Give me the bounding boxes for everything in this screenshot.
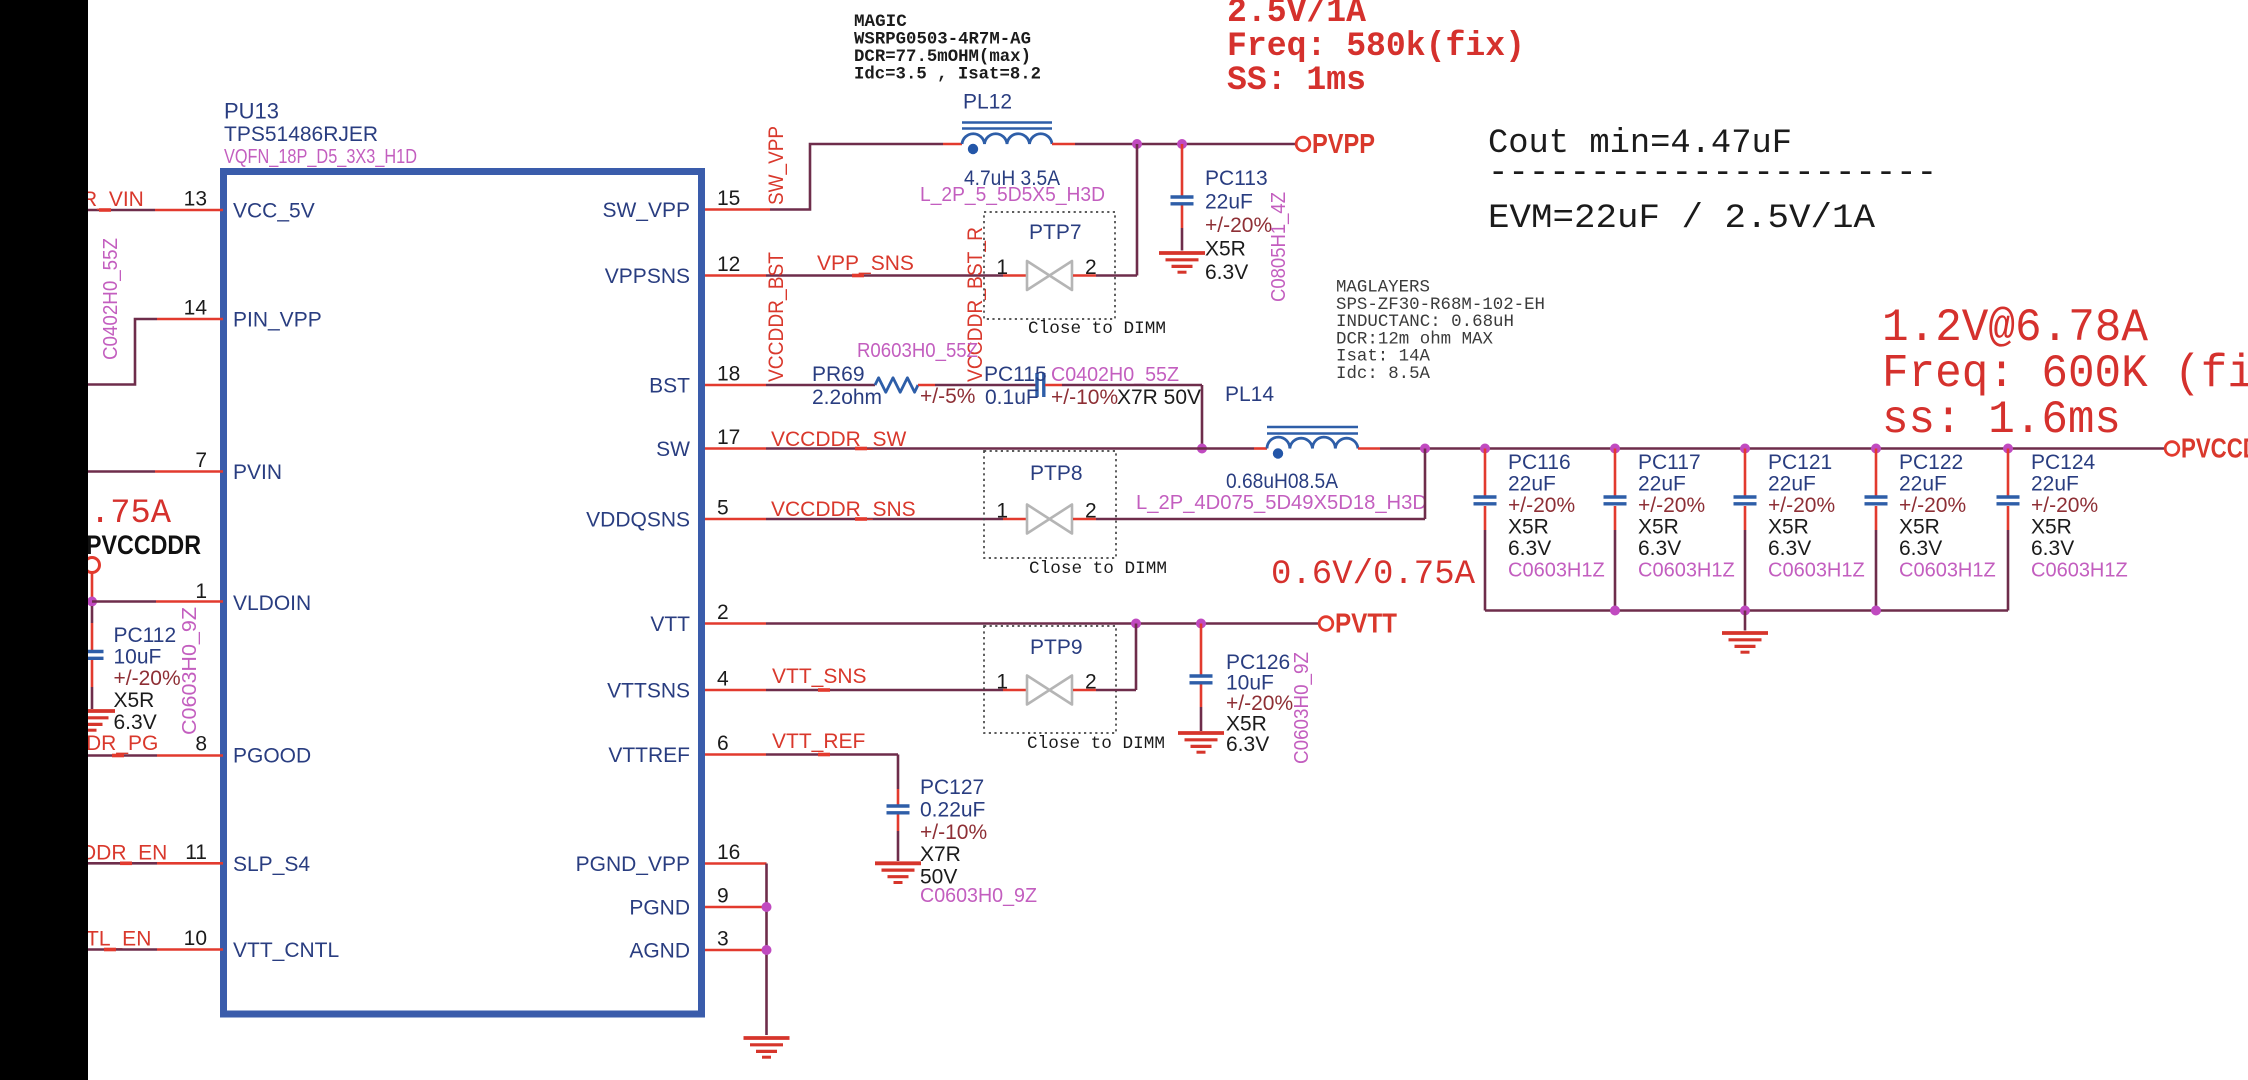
reference designator PL14 — [1225, 383, 1274, 406]
value label 2.2ohm — [812, 386, 882, 409]
capacitor PC126 — [1190, 676, 1213, 683]
svg-text:SLP_S4: SLP_S4 — [233, 853, 310, 876]
test point PTP9 dotted box — [984, 626, 1116, 733]
wire stub to ground — [1744, 611, 1747, 631]
note Close to DIMM (PTP8) — [1029, 559, 1167, 579]
pin number 2 of PTP7 — [1085, 256, 1097, 279]
svg-text:L_2P_4D075_5D49X5D18_H3D: L_2P_4D075_5D49X5D18_H3D — [1136, 492, 1427, 514]
svg-text:X5R: X5R — [1205, 238, 1246, 261]
op-amp/regulator IC PU13 TPS51486RJER body — [224, 172, 702, 1015]
svg-text:C0603H0_9Z: C0603H0_9Z — [920, 885, 1037, 907]
svg-text:+/-10%: +/-10% — [920, 821, 987, 844]
svg-text:SPS-ZF30-R68M-102-EH: SPS-ZF30-R68M-102-EH — [1336, 296, 1545, 315]
svg-text:22uF: 22uF — [1899, 473, 1947, 496]
pin name SW — [656, 438, 690, 461]
pin number 14 — [184, 297, 208, 320]
svg-text:PL12: PL12 — [963, 91, 1012, 114]
junction node PGND — [762, 902, 772, 912]
inductor PL12 — [962, 123, 1052, 155]
svg-text:PC122: PC122 — [1899, 451, 1963, 474]
svg-text:Idc: 8.5A: Idc: 8.5A — [1336, 365, 1431, 384]
pin number 15 — [717, 187, 740, 210]
note EVM=22uF / 2.5V/1A — [1488, 200, 1876, 238]
pin name VLDOIN — [233, 592, 311, 615]
wire node down to capacitor PC112 — [91, 606, 94, 650]
left black mask bar — [0, 0, 88, 1080]
port symbol PVCCDDR left — [85, 558, 100, 573]
value labels PC124 — [2031, 451, 2128, 582]
capacitor PC121 — [1734, 497, 1757, 504]
svg-text:SW_VPP: SW_VPP — [765, 126, 788, 205]
footprint label L_2P_4D075_5D49X5D18_H3D — [1136, 492, 1427, 514]
reference designator PR69 — [812, 363, 865, 386]
svg-text:C0603H1Z: C0603H1Z — [1508, 560, 1605, 582]
wire PC121 to bottom rail — [1744, 506, 1747, 611]
net label VCCDDR_BST_R (vertical) — [964, 227, 987, 382]
svg-text:6.3V: 6.3V — [1899, 537, 1942, 560]
svg-text:13: 13 — [184, 188, 207, 211]
capacitor footprint label C0603H0_9Z (PC127) — [920, 885, 1037, 907]
svg-text:SW: SW — [656, 438, 690, 461]
port symbol PVCCDDR — [2165, 442, 2179, 456]
svg-text:ss: 1.6ms: ss: 1.6ms — [1882, 394, 2121, 446]
PU13 footprint label — [224, 145, 417, 168]
svg-text:X5R: X5R — [1508, 516, 1549, 539]
svg-text:C0603H0_9Z: C0603H0_9Z — [179, 607, 201, 735]
svg-text:X5R: X5R — [2031, 516, 2072, 539]
wire pin 15 SW_VPP up and right — [705, 144, 962, 210]
pin name VDDQSNS — [586, 509, 690, 532]
wire rail down to capacitor PC116 — [1484, 449, 1487, 496]
wire rail down to capacitor PC122 — [1875, 449, 1878, 496]
pin number 17 — [717, 426, 740, 449]
svg-text:22uF: 22uF — [1205, 191, 1253, 214]
junction nodes on bottom rail — [1610, 606, 1881, 616]
pin name PVIN — [233, 461, 282, 484]
svg-text:+/-20%: +/-20% — [2031, 494, 2098, 517]
svg-text:6.3V: 6.3V — [2031, 537, 2074, 560]
pin number 4 — [717, 668, 729, 691]
svg-text:X5R: X5R — [1768, 516, 1809, 539]
capacitor footprint label C0603H0_9Z (PC126, vertical) — [1291, 652, 1313, 764]
pin number 7 — [195, 449, 207, 472]
svg-text:PR69: PR69 — [812, 363, 865, 386]
note Close to DIMM (PTP7) — [1028, 319, 1166, 339]
svg-text:C0603H1Z: C0603H1Z — [1638, 560, 1735, 582]
svg-text:22uF: 22uF — [1638, 473, 1686, 496]
svg-text:PTP9: PTP9 — [1030, 636, 1083, 659]
note MAGIC inductor spec block — [854, 12, 1041, 85]
svg-text:VTTREF: VTTREF — [608, 744, 690, 767]
svg-text:22uF: 22uF — [1508, 473, 1556, 496]
port symbol PVPP — [1296, 137, 1310, 151]
ground under cap bank — [1722, 633, 1768, 652]
svg-text:9: 9 — [717, 885, 729, 908]
svg-text:1: 1 — [996, 500, 1008, 523]
net label VCCDDR_SNS — [771, 498, 916, 521]
pin name PGND_VPP — [576, 853, 690, 876]
wire PTP9 pin2 up to PVTT rail — [1073, 624, 1136, 691]
pin name VTTSNS — [607, 680, 690, 703]
tolerance label +/-10% — [1051, 386, 1118, 409]
svg-text:6.3V: 6.3V — [1508, 537, 1551, 560]
svg-text:DDR_EN: DDR_EN — [81, 842, 167, 865]
svg-text:15: 15 — [717, 187, 740, 210]
svg-text:6: 6 — [717, 732, 729, 755]
ground under PC126 — [1178, 733, 1224, 752]
net label DDR_EN — [81, 842, 167, 865]
svg-text:C0603H1Z: C0603H1Z — [2031, 560, 2128, 582]
capacitor PC116 — [1474, 497, 1497, 504]
pin number 1 of PTP7 — [996, 256, 1008, 279]
junction node VTT/PC126 — [1196, 619, 1206, 629]
wire net to pin 7 PVIN — [88, 470, 223, 473]
svg-text:PC113: PC113 — [1205, 167, 1268, 190]
resistor PR69 — [875, 378, 918, 392]
pin name SW_VPP — [602, 199, 690, 222]
net label VCCDDR_BST (vertical) — [765, 252, 788, 382]
svg-text:L_2P_5_5D5X5_H3D: L_2P_5_5D5X5_H3D — [920, 184, 1105, 206]
svg-text:X5R: X5R — [1899, 516, 1940, 539]
svg-text:5: 5 — [717, 497, 729, 520]
svg-text:6.3V: 6.3V — [1768, 537, 1811, 560]
capacitor PC117 — [1604, 497, 1627, 504]
svg-text:2: 2 — [717, 601, 729, 624]
wire pin 4 VTTSNS to PTP9 — [705, 689, 1026, 692]
capacitor footprint label C0805H1_4Z (vertical) — [1268, 192, 1290, 302]
svg-text:Isat: 14A: Isat: 14A — [1336, 348, 1431, 367]
pin number 1 of PTP8 — [996, 500, 1008, 523]
svg-text:6.3V: 6.3V — [114, 711, 157, 734]
wire pin 17 SW rail — [705, 447, 1267, 450]
wire rail down to capacitor PC117 — [1614, 449, 1617, 496]
note Cout min=4.47uF — [1488, 125, 1792, 163]
svg-text:7: 7 — [195, 449, 207, 472]
svg-text:PVCCDDR: PVCCDDR — [2181, 433, 2248, 464]
svg-text:+/-20%: +/-20% — [1899, 494, 1966, 517]
value labels PC112 — [114, 624, 181, 734]
junction node VLDOIN — [87, 597, 97, 607]
footprint label C0402H0_55Z — [1051, 364, 1179, 386]
svg-text:PC116: PC116 — [1508, 451, 1571, 474]
pin number 13 — [184, 188, 207, 211]
wire PC122 to bottom rail — [1875, 506, 1878, 611]
svg-text:VDDQSNS: VDDQSNS — [586, 509, 690, 532]
capacitor footprint label C0603H0_9Z (left, vertical) — [179, 607, 201, 735]
pin number 8 — [195, 733, 207, 756]
svg-text:----------------------: ---------------------- — [1488, 155, 1937, 193]
wire pin 6 VTTREF down to PC127 — [705, 755, 898, 805]
svg-text:PU13: PU13 — [224, 99, 279, 124]
svg-text:PC124: PC124 — [2031, 451, 2096, 474]
ground under PC127 — [875, 863, 921, 882]
svg-text:VCCDDR_SNS: VCCDDR_SNS — [771, 498, 916, 521]
reference designator PTP8 — [1030, 462, 1083, 485]
wire PC117 to bottom rail — [1614, 506, 1617, 611]
svg-text:Idc=3.5 , Isat=8.2: Idc=3.5 , Isat=8.2 — [854, 65, 1041, 85]
svg-text:Freq: 580k(fix): Freq: 580k(fix) — [1227, 28, 1525, 66]
svg-text:+/-10%: +/-10% — [1051, 386, 1118, 409]
svg-text:SS: 1ms: SS: 1ms — [1227, 62, 1366, 100]
wire port to node — [91, 572, 94, 597]
svg-text:PTP8: PTP8 — [1030, 462, 1083, 485]
svg-text:PVPP: PVPP — [1312, 128, 1375, 159]
net label VCCDDR_SW — [771, 428, 907, 451]
svg-text:0.22uF: 0.22uF — [920, 799, 985, 822]
capacitor footprint label C0402H0_55Z (left, vertical) — [100, 238, 122, 360]
inductor PL14 — [1267, 427, 1358, 459]
svg-text:PC117: PC117 — [1638, 451, 1701, 474]
svg-text:+/-20%: +/-20% — [1638, 494, 1705, 517]
capacitor PC113 — [1171, 197, 1194, 204]
junction node at x=1137 — [1132, 139, 1142, 149]
svg-text:PTP7: PTP7 — [1029, 221, 1082, 244]
svg-text:X7R: X7R — [920, 843, 961, 866]
value labels PC121 — [1768, 451, 1865, 582]
wire pin 5 VDDQSNS to PTP8 — [705, 518, 1026, 521]
svg-text:VTT_CNTL: VTT_CNTL — [233, 939, 339, 962]
svg-text:PIN_VPP: PIN_VPP — [233, 309, 322, 332]
svg-text:+/-20%: +/-20% — [1508, 494, 1575, 517]
svg-text:INDUCTANC: 0.68uH: INDUCTANC: 0.68uH — [1336, 313, 1514, 332]
svg-text:6.3V: 6.3V — [1205, 261, 1248, 284]
test point PTP8 dotted box — [984, 451, 1116, 558]
net label DR_PG — [86, 732, 158, 755]
tolerance label +/-5% — [920, 385, 975, 408]
svg-text:6.3V: 6.3V — [1638, 537, 1681, 560]
svg-text:C0603H1Z: C0603H1Z — [1899, 560, 1996, 582]
svg-text:Close to DIMM: Close to DIMM — [1027, 734, 1165, 754]
svg-text:1: 1 — [195, 580, 207, 603]
svg-text:14: 14 — [184, 297, 208, 320]
svg-text:PC112: PC112 — [114, 624, 177, 647]
svg-text:PC127: PC127 — [920, 776, 984, 799]
svg-text:X5R: X5R — [114, 689, 155, 712]
svg-text:Close to DIMM: Close to DIMM — [1028, 319, 1166, 339]
value labels PC127 — [920, 776, 987, 889]
svg-text:+/-20%: +/-20% — [1768, 494, 1835, 517]
wire PC124 to bottom rail — [2007, 506, 2010, 611]
value labels PC122 — [1899, 451, 1996, 582]
svg-text:1.2V@6.78A: 1.2V@6.78A — [1882, 302, 2148, 354]
svg-text:PVIN: PVIN — [233, 461, 282, 484]
svg-text:3: 3 — [717, 928, 729, 951]
wire rail down to capacitor PC121 — [1744, 449, 1747, 496]
wire bottom ground rail of cap bank — [1485, 609, 2008, 612]
junction nodes on PVCCDDR rail — [1420, 444, 2013, 454]
pin name PGOOD — [233, 745, 311, 768]
port name PVCCDDR — [2181, 433, 2248, 464]
svg-text:AGND: AGND — [629, 940, 690, 963]
wire pin 9 PGND — [705, 906, 764, 909]
pin name VTT — [650, 613, 690, 636]
reference designator PL12 — [963, 91, 1012, 114]
svg-text:R0603H0_55Z: R0603H0_55Z — [857, 340, 978, 362]
test point symbol PTP7 — [1027, 261, 1072, 290]
svg-text:EVM=22uF / 2.5V/1A: EVM=22uF / 2.5V/1A — [1488, 200, 1876, 238]
svg-text:DR_PG: DR_PG — [86, 732, 158, 755]
PU13 reference designator — [224, 99, 279, 124]
value label 0.68uH08.5A — [1226, 470, 1338, 493]
svg-text:1: 1 — [996, 256, 1008, 279]
pin name BST — [649, 375, 690, 398]
svg-text:12: 12 — [717, 253, 740, 276]
pin name VTT_CNTL — [233, 939, 339, 962]
svg-text:C0402H0_55Z: C0402H0_55Z — [1051, 364, 1179, 386]
pin number 2 — [717, 601, 729, 624]
svg-text:PGND: PGND — [629, 897, 690, 920]
note 2.5V/1A output spec (bold red) — [1227, 0, 1525, 100]
value label 4.7uH 3.5A — [964, 167, 1060, 190]
svg-text:R_VIN: R_VIN — [82, 188, 144, 211]
svg-text:SW_VPP: SW_VPP — [602, 199, 690, 222]
port name PVPP — [1312, 128, 1375, 159]
svg-text:DCR:12m ohm MAX: DCR:12m ohm MAX — [1336, 330, 1494, 349]
wire pin 3 AGND — [705, 949, 764, 952]
junction node BST/SW — [1197, 444, 1207, 454]
svg-text:VCC_5V: VCC_5V — [233, 200, 315, 223]
svg-text:VQFN_18P_D5_3X3_H1D: VQFN_18P_D5_3X3_H1D — [224, 145, 417, 168]
wire pin 18 BST to resistor PR69 — [705, 384, 875, 387]
net label VTT_SNS — [772, 665, 867, 688]
capacitor PC115 (series) — [1037, 373, 1044, 397]
wire pin 16 PGND_VPP — [705, 864, 767, 1036]
svg-text:0.6V/0.75A: 0.6V/0.75A — [1271, 556, 1476, 594]
svg-text:PC121: PC121 — [1768, 451, 1832, 474]
wire node to pin 1 VLDOIN — [92, 600, 223, 603]
net label SW_VPP (vertical) — [765, 126, 788, 205]
pin number 12 — [717, 253, 740, 276]
svg-text:C0603H0_9Z: C0603H0_9Z — [1291, 652, 1313, 764]
port name PVTT — [1335, 608, 1397, 639]
pin number 1 of PTP9 — [996, 671, 1008, 694]
svg-text:X7R 50V: X7R 50V — [1117, 386, 1201, 409]
capacitor PC112 — [81, 652, 104, 659]
svg-text:Close to DIMM: Close to DIMM — [1029, 559, 1167, 579]
pin number 2 of PTP9 — [1085, 671, 1097, 694]
svg-text:VTT_SNS: VTT_SNS — [772, 665, 867, 688]
net label VPP_SNS — [817, 252, 914, 275]
svg-text:PVTT: PVTT — [1335, 608, 1397, 639]
svg-text:+/-20%: +/-20% — [114, 667, 181, 690]
port name PVCCDDR (left) — [86, 530, 201, 560]
svg-text:4: 4 — [717, 668, 729, 691]
capacitor PC124 — [1997, 497, 2020, 504]
svg-text:VCCDDR_BST: VCCDDR_BST — [765, 252, 788, 382]
pin number 10 — [184, 927, 207, 950]
wire PTP8 pin2 up to SW rail — [1073, 449, 1425, 520]
svg-text:VCCDDR_SW: VCCDDR_SW — [771, 428, 907, 451]
svg-text:6.3V: 6.3V — [1226, 733, 1269, 756]
note Close to DIMM (PTP9) — [1027, 734, 1165, 754]
ground under AGND/PGND — [744, 1038, 790, 1057]
svg-text:+/-5%: +/-5% — [920, 385, 975, 408]
test point symbol PTP8 — [1027, 505, 1072, 534]
wire rail down to capacitor PC124 — [2007, 449, 2010, 496]
wire pin 2 VTT to PVTT port — [705, 622, 1319, 625]
wire net to pin 14 PIN_VPP — [88, 319, 223, 385]
svg-text:22uF: 22uF — [2031, 473, 2079, 496]
svg-text:PL14: PL14 — [1225, 383, 1274, 406]
svg-text:10: 10 — [184, 927, 207, 950]
svg-text:11: 11 — [185, 841, 207, 864]
wire PC116 to bottom rail — [1484, 506, 1487, 611]
svg-text:18: 18 — [717, 363, 740, 386]
reference designator PC115 — [984, 363, 1047, 386]
pin number 3 — [717, 928, 729, 951]
pin name SLP_S4 — [233, 853, 310, 876]
capacitor PC122 — [1865, 497, 1888, 504]
wire PC127 to ground — [897, 815, 900, 862]
svg-text:VPP_SNS: VPP_SNS — [817, 252, 914, 275]
wire net to pin 8 PGOOD — [88, 754, 223, 757]
footprint label L_2P_5_5D5X5_H3D — [920, 184, 1105, 206]
svg-text:C0402H0_55Z: C0402H0_55Z — [100, 238, 122, 360]
capacitor PC127 — [887, 806, 910, 813]
net label anchor ticks — [99, 208, 867, 951]
wire net to pin 11 SLP_S4 — [88, 862, 223, 865]
svg-text:VTT_REF: VTT_REF — [772, 730, 865, 753]
svg-text:VLDOIN: VLDOIN — [233, 592, 311, 615]
svg-text:C0805H1_4Z: C0805H1_4Z — [1268, 192, 1290, 302]
label .75A (truncated 0.75A) — [90, 495, 172, 533]
resistor footprint label R0603H0_55Z — [857, 340, 978, 362]
svg-text:TL_EN: TL_EN — [86, 928, 151, 951]
svg-text:PGND_VPP: PGND_VPP — [576, 853, 690, 876]
pin number 1 — [195, 580, 207, 603]
svg-text:10uF: 10uF — [114, 646, 162, 669]
svg-text:C0603H1Z: C0603H1Z — [1768, 560, 1865, 582]
svg-text:17: 17 — [717, 426, 740, 449]
value labels PC113 — [1205, 167, 1272, 284]
pin name PIN_VPP — [233, 309, 322, 332]
wire PC113 to ground — [1181, 206, 1184, 251]
svg-text:PVCCDDR: PVCCDDR — [86, 530, 201, 560]
note MAGLAYERS inductor spec block — [1336, 279, 1545, 385]
wire net DDR_VIN to pin 13 — [88, 209, 223, 212]
pin number 9 — [717, 885, 729, 908]
junction node VTT/PTP9 — [1131, 619, 1141, 629]
note separator dashes — [1488, 155, 1937, 193]
svg-text:VTTSNS: VTTSNS — [607, 680, 690, 703]
pin name VCC_5V — [233, 200, 315, 223]
test point symbol PTP9 — [1027, 676, 1072, 705]
pin number 2 of PTP8 — [1085, 500, 1097, 523]
svg-text:0.68uH08.5A: 0.68uH08.5A — [1226, 470, 1338, 493]
ground under PC112 — [69, 711, 115, 730]
wire pin 12 VPPSNS to PTP7 — [705, 274, 1026, 277]
svg-text:1: 1 — [996, 671, 1008, 694]
svg-text:2.2ohm: 2.2ohm — [812, 386, 882, 409]
svg-text:16: 16 — [717, 841, 740, 864]
junction node AGND — [762, 945, 772, 955]
pin number 16 — [717, 841, 740, 864]
note 1.2V@6.78A output spec (red) — [1882, 302, 2248, 446]
reference designator PTP9 — [1030, 636, 1083, 659]
value labels PC116 — [1508, 451, 1605, 582]
svg-text:Freq: 600K (fix): Freq: 600K (fix) — [1882, 348, 2248, 400]
svg-text:VTT: VTT — [650, 613, 690, 636]
svg-text:BST: BST — [649, 375, 690, 398]
wire net to pin 10 VTT_CNTL — [88, 948, 223, 951]
note 0.6V/0.75A (red) — [1271, 556, 1476, 594]
svg-text:MAGLAYERS: MAGLAYERS — [1336, 279, 1430, 298]
value labels PC126 — [1226, 651, 1293, 756]
pin name VTTREF — [608, 744, 690, 767]
svg-text:0.1uF: 0.1uF — [985, 386, 1039, 409]
svg-text:TPS51486RJER: TPS51486RJER — [224, 123, 378, 146]
net label R_VIN — [82, 188, 144, 211]
